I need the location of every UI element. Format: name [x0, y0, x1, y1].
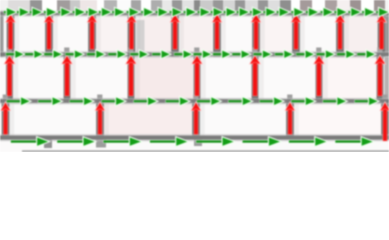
red arrows row A (point up to line 1) [6, 14, 387, 50]
row A tinted cells (between line 1 and line 2) [95, 15, 377, 53]
soft shadows right of row C edges [9, 104, 389, 138]
green arrow chain on line 2 [6, 50, 376, 59]
row C tinted cells (between line 3 and line 4) [104, 103, 381, 136]
soft shadows right of row A edges [14, 16, 389, 56]
horizontal line L2 [0, 53, 389, 57]
row D vertical edge stubs below line 4 [44, 139, 202, 148]
row B tinted cells (between line 2 and line 3) [135, 57, 376, 99]
horizontal line L3 [0, 99, 389, 103]
green arrow chain on line 3 [7, 97, 380, 106]
row C vertical edges [2, 102, 389, 139]
red arrows row C (point up to line 3) [1, 102, 389, 141]
horizontal line L1 halo [0, 10, 389, 16]
green arrow chain on line 4 [11, 137, 375, 147]
top band: cut-off row of cells above line 1 [0, 0, 389, 12]
green arrow chain on line 1 [4, 7, 389, 17]
row B right cut edge [385, 57, 389, 99]
horizontal line L3 halo [0, 98, 389, 104]
row A right cut edge [386, 14, 389, 56]
row A vertical edges [7, 14, 386, 57]
row B vertical edges [6, 56, 383, 102]
horizontal line L1 [0, 12, 389, 15]
row B edge overshoot stubs above line 2 [7, 48, 383, 56]
row C edge overshoot stubs above line 3 [3, 95, 388, 103]
horizontal line L4 halo [0, 134, 389, 141]
horizontal line L5 sliver at bottom [22, 150, 389, 152]
shade right of row A edge at x=134 [137, 20, 145, 52]
row A left cut edge [0, 13, 4, 57]
red arrows row B (point up to line 2) [4, 55, 386, 96]
horizontal line L2 halo [0, 51, 389, 57]
soft shadows right of row B edges [13, 58, 389, 101]
horizontal line L4 [0, 136, 389, 140]
